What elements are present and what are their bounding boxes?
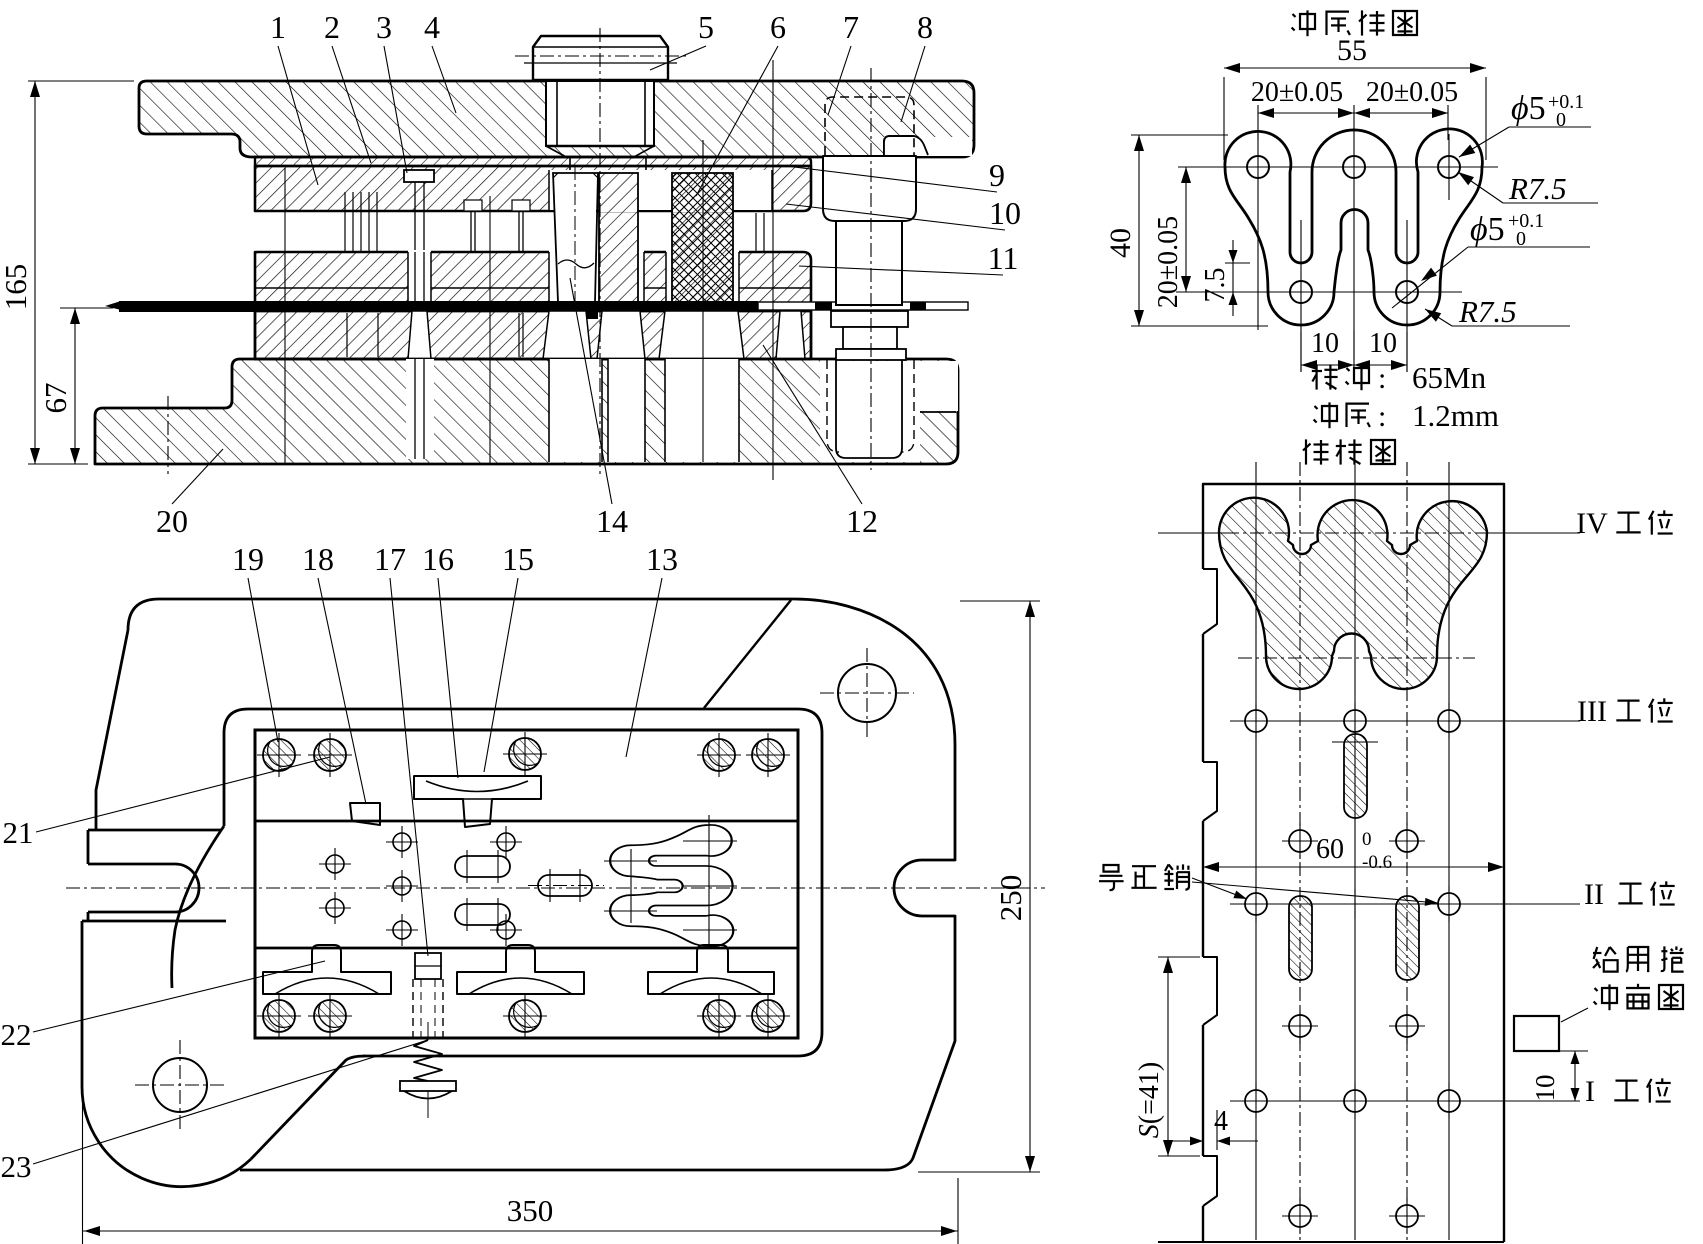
bushing seat notch [884, 136, 922, 157]
svg-text:+0.1: +0.1 [1508, 210, 1544, 232]
svg-text::: : [1378, 400, 1386, 433]
dim 60 [1203, 866, 1504, 868]
dim 10 [1559, 1050, 1588, 1052]
svg-text:22: 22 [1, 1017, 32, 1052]
pilot pin part3 [404, 170, 434, 182]
punch part6 small [599, 173, 638, 302]
title paiyangtu [1303, 439, 1329, 464]
die block [255, 730, 798, 1038]
dim 10 10 [1300, 332, 1302, 372]
stripper bolt pockets [464, 200, 482, 211]
svg-text:20±0.05: 20±0.05 [1251, 77, 1343, 108]
svg-text:4: 4 [424, 9, 440, 45]
svg-text:23: 23 [1, 1149, 32, 1184]
main centerline [66, 887, 1045, 889]
strip outline [1203, 484, 1504, 1242]
daozhengxiao label [1099, 865, 1124, 890]
dim S=41 [1158, 956, 1200, 958]
svg-text:15: 15 [502, 541, 534, 577]
plan view lower die [1, 541, 1046, 1244]
svg-text:13: 13 [646, 541, 678, 577]
dim 20pm [1257, 105, 1259, 140]
lifter piece 15/16 [414, 776, 541, 827]
material strip [105, 301, 121, 310]
section view: progressive die assembly [0, 9, 1021, 539]
svg-text:250: 250 [993, 875, 1028, 922]
title chongyajiantu [1292, 10, 1315, 36]
svg-text:3: 3 [376, 9, 392, 45]
station III circles [1245, 710, 1267, 732]
spring pins [344, 192, 346, 252]
svg-text:165: 165 [0, 264, 33, 311]
dim 67 [60, 307, 113, 309]
svg-text:III: III [1577, 695, 1607, 728]
svg-text:16: 16 [422, 541, 454, 577]
edge notches [1203, 569, 1217, 634]
punch part6 big crosshatched [672, 173, 733, 302]
svg-text:20±0.05: 20±0.05 [1366, 77, 1458, 108]
svg-text:7: 7 [843, 9, 859, 45]
shoe pockets [549, 359, 602, 462]
svg-text:21: 21 [3, 815, 34, 850]
dim 40 [1131, 134, 1228, 136]
lower die shoe part20 [95, 359, 958, 464]
spring [414, 1040, 442, 1081]
dim 350 [82, 1100, 84, 1244]
backing plate part2 [255, 157, 811, 166]
dim 55 [1223, 77, 1225, 160]
outline left side [82, 630, 226, 1086]
upper shoe silhouette diagonal top right [704, 600, 791, 708]
left clamp slot [88, 864, 199, 912]
hatched slot III [1344, 734, 1367, 818]
dim 7.5 [1225, 262, 1250, 264]
bottom circles [1289, 1205, 1311, 1227]
svg-text:2: 2 [324, 9, 340, 45]
upper die shoe part4 [139, 81, 974, 157]
oblong slots [455, 856, 510, 877]
guide post part12 [836, 221, 902, 305]
upper shoe silhouette curve [172, 826, 224, 988]
material notes [1312, 364, 1338, 389]
dim 20pm vert [1185, 167, 1187, 292]
svg-text:ϕ5: ϕ5 [1470, 211, 1505, 248]
svg-text:18: 18 [302, 541, 334, 577]
strip layout [1099, 462, 1684, 1242]
dim 165 [28, 80, 134, 82]
svg-text:7.5: 7.5 [1200, 268, 1231, 303]
part outline [1225, 129, 1483, 325]
circles between [1289, 830, 1311, 852]
svg-text:IV: IV [1576, 507, 1608, 540]
stopper 18 [350, 803, 380, 825]
svg-text:5: 5 [698, 9, 714, 45]
svg-text::: : [1378, 362, 1386, 395]
plate1 bottom edge segments [549, 210, 554, 212]
svg-text:65Mn: 65Mn [1412, 360, 1487, 395]
svg-text:-0.6: -0.6 [1362, 852, 1392, 873]
svg-text:0: 0 [1362, 829, 1372, 850]
die ejector pin lines [346, 313, 348, 357]
svg-text:55: 55 [1337, 34, 1367, 67]
punch 14 white with break line [553, 173, 598, 302]
lower diagonal edge [251, 1056, 365, 1159]
dim 250 [960, 600, 1040, 602]
starting stop device [1514, 1016, 1559, 1051]
svg-text:11: 11 [988, 240, 1019, 276]
svg-text:19: 19 [232, 541, 264, 577]
svg-text:67: 67 [38, 383, 73, 414]
retainers 22 [263, 945, 391, 994]
svg-text:S(=41): S(=41) [1134, 1062, 1165, 1138]
svg-text:ϕ5: ϕ5 [1511, 90, 1546, 127]
svg-text:60: 60 [1316, 834, 1344, 865]
svg-text:40: 40 [1104, 228, 1137, 258]
svg-text:6: 6 [770, 9, 786, 45]
svg-text:10: 10 [1530, 1075, 1560, 1102]
station I circles [1245, 1090, 1267, 1112]
hatched slots II [1289, 896, 1312, 980]
guide bushing body [823, 156, 916, 221]
svg-text:1.2mm: 1.2mm [1412, 398, 1499, 433]
svg-text:14: 14 [596, 503, 628, 539]
svg-text:I: I [1585, 1075, 1595, 1108]
svg-text:17: 17 [374, 541, 406, 577]
blanked part station IV [1219, 498, 1487, 689]
svg-text:II: II [1584, 878, 1604, 911]
svg-text:350: 350 [507, 1193, 554, 1228]
svg-text:9: 9 [989, 157, 1005, 193]
circles row [1289, 1015, 1311, 1037]
svg-text:R7.5: R7.5 [1508, 171, 1567, 206]
washer [400, 1081, 456, 1091]
screws and dowels [263, 739, 295, 771]
die plate [255, 311, 811, 359]
strip gridlines [1255, 462, 1257, 1240]
svg-text:4: 4 [1214, 1106, 1228, 1137]
die holder plate [224, 709, 822, 1056]
stripper plate part11 [255, 252, 811, 304]
section trace lines [284, 168, 286, 464]
bottom-left round lobe [82, 1086, 251, 1187]
punch holder plate part1 [255, 166, 811, 211]
svg-text:10: 10 [1311, 328, 1339, 359]
svg-text:1: 1 [270, 9, 286, 45]
station II circles [1245, 893, 1267, 915]
svg-text:20: 20 [156, 503, 188, 539]
screw part5 [533, 36, 668, 80]
outer plate outline top and right [128, 599, 955, 1170]
part holes [1247, 156, 1269, 178]
svg-text:+0.1: +0.1 [1548, 91, 1584, 113]
spring screw 17 [415, 953, 441, 979]
pilot holes [326, 855, 344, 873]
svg-text:12: 12 [846, 503, 878, 539]
svg-text:10: 10 [1369, 328, 1397, 359]
svg-text:8: 8 [917, 9, 933, 45]
stamped part drawing [1104, 10, 1598, 464]
svg-text:20±0.05: 20±0.05 [1153, 216, 1184, 308]
corner holes [838, 664, 896, 722]
svg-text:R7.5: R7.5 [1458, 294, 1517, 329]
die opening W shape [610, 825, 733, 946]
svg-text:0: 0 [1556, 109, 1566, 131]
svg-text:10: 10 [989, 195, 1021, 231]
guide bushing part8 dashed seat [825, 97, 914, 155]
